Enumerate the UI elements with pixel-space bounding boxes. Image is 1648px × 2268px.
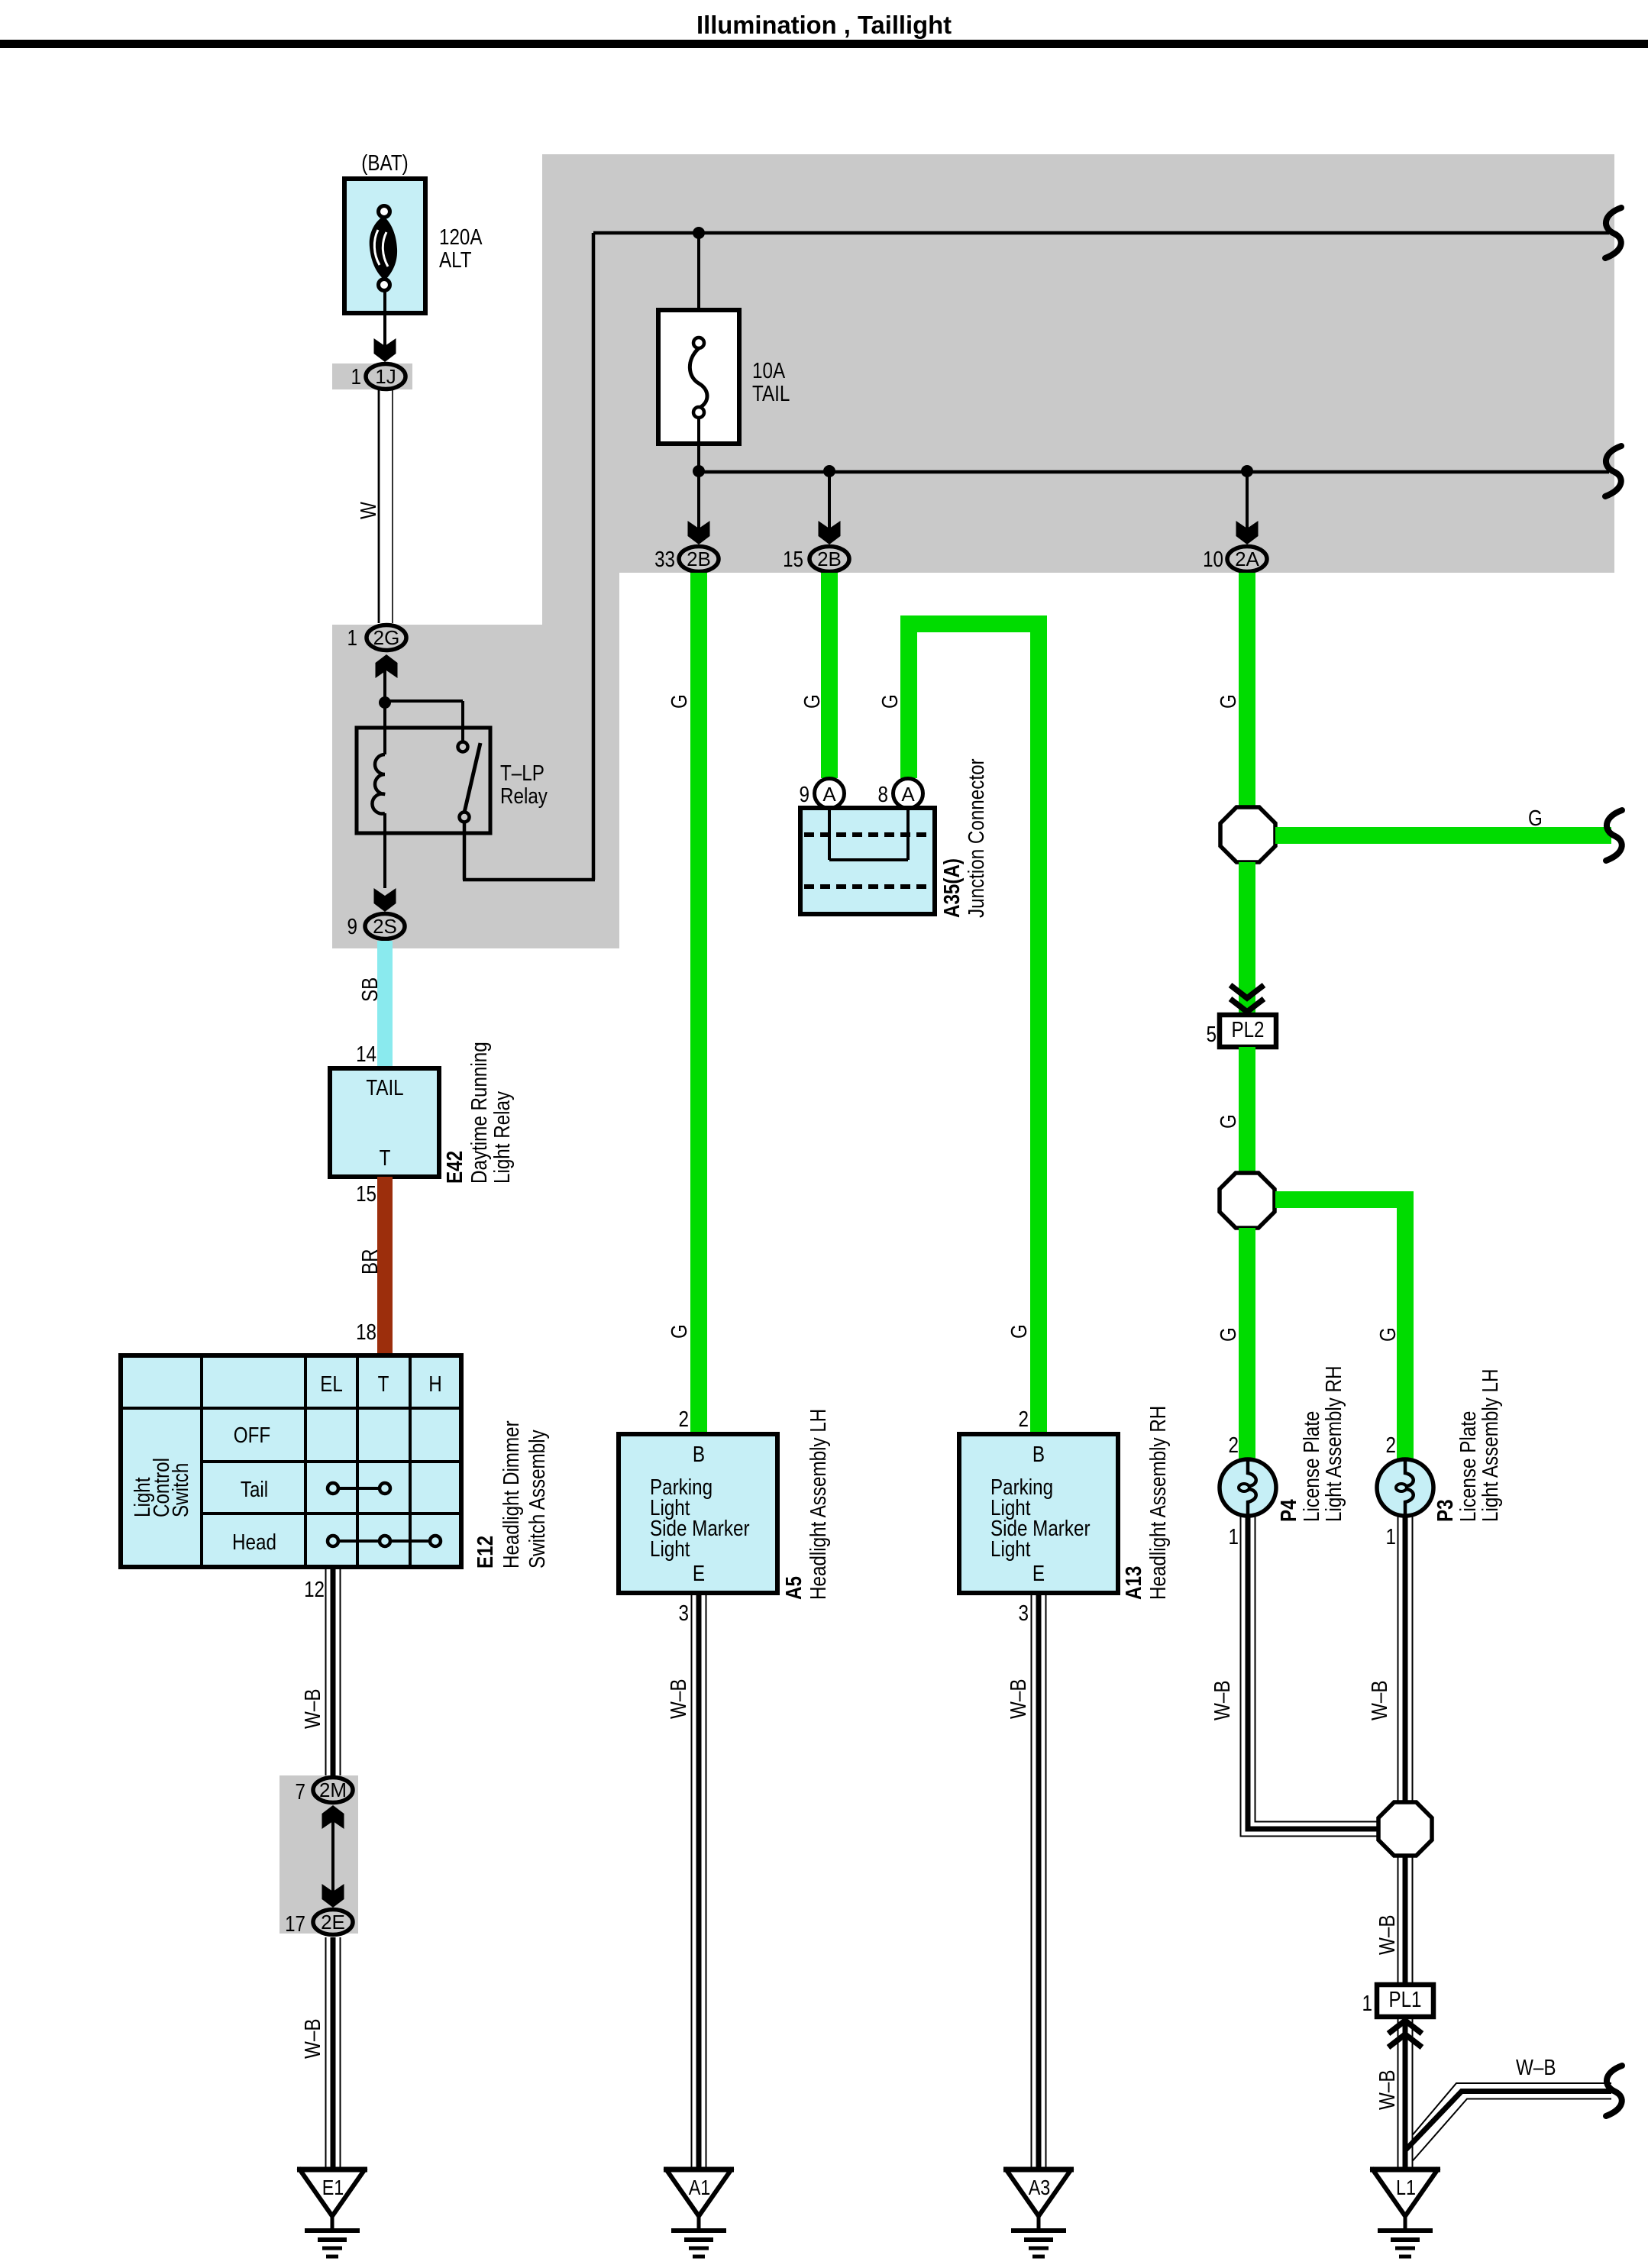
svg-text:G: G	[878, 694, 903, 709]
svg-text:A3: A3	[1029, 2176, 1051, 2199]
svg-text:2M: 2M	[319, 1779, 347, 1801]
svg-text:2S: 2S	[373, 915, 397, 938]
svg-text:E: E	[693, 1562, 705, 1586]
svg-text:2: 2	[679, 1407, 690, 1432]
svg-text:W–B: W–B	[667, 1679, 691, 1720]
svg-text:ALT: ALT	[439, 248, 472, 273]
svg-text:E1: E1	[322, 2176, 344, 2199]
svg-text:E12: E12	[473, 1536, 498, 1569]
svg-text:P3: P3	[1433, 1499, 1458, 1522]
svg-text:B: B	[1032, 1443, 1045, 1467]
svg-text:A5: A5	[782, 1576, 806, 1600]
svg-text:15: 15	[356, 1182, 376, 1207]
svg-text:TAIL: TAIL	[366, 1076, 403, 1100]
svg-text:Switch Assembly: Switch Assembly	[525, 1430, 550, 1569]
svg-text:T–LP: T–LP	[500, 761, 544, 786]
svg-text:G: G	[1007, 1324, 1032, 1339]
svg-text:Tail: Tail	[241, 1478, 268, 1502]
svg-text:2: 2	[1386, 1433, 1397, 1458]
svg-text:W–B: W–B	[1375, 2070, 1400, 2111]
svg-text:17: 17	[285, 1912, 305, 1937]
svg-text:A35(A): A35(A)	[940, 858, 965, 918]
svg-text:9: 9	[800, 783, 810, 807]
svg-text:12: 12	[304, 1578, 325, 1602]
svg-text:(BAT): (BAT)	[361, 151, 408, 176]
svg-text:A1: A1	[689, 2176, 711, 2199]
svg-text:G: G	[800, 694, 825, 709]
svg-text:Switch: Switch	[169, 1463, 193, 1517]
svg-text:2: 2	[1229, 1433, 1239, 1458]
svg-text:Light: Light	[650, 1537, 690, 1562]
svg-text:Head: Head	[232, 1530, 276, 1555]
svg-text:W–B: W–B	[1375, 1915, 1400, 1956]
svg-text:Illumination , Taillight: Illumination , Taillight	[696, 11, 952, 39]
svg-text:G: G	[1217, 694, 1241, 709]
svg-text:TAIL: TAIL	[752, 382, 790, 406]
svg-text:7: 7	[296, 1780, 306, 1804]
svg-text:SB: SB	[358, 977, 383, 1002]
svg-text:OFF: OFF	[234, 1423, 270, 1448]
svg-text:15: 15	[783, 548, 803, 572]
svg-text:BR: BR	[358, 1249, 383, 1275]
svg-text:License Plate: License Plate	[1300, 1411, 1324, 1522]
svg-text:Light Assembly RH: Light Assembly RH	[1322, 1366, 1346, 1523]
svg-text:10: 10	[1203, 548, 1223, 572]
svg-text:EL: EL	[320, 1372, 343, 1397]
svg-text:Daytime Running: Daytime Running	[467, 1042, 492, 1184]
svg-text:2G: 2G	[373, 626, 400, 649]
svg-text:G: G	[1217, 1114, 1241, 1129]
svg-text:3: 3	[679, 1601, 690, 1626]
svg-text:1: 1	[1362, 1992, 1373, 2016]
svg-text:2B: 2B	[817, 548, 842, 570]
svg-text:G: G	[1376, 1327, 1401, 1342]
svg-text:T: T	[380, 1146, 391, 1171]
svg-text:Light: Light	[990, 1537, 1031, 1562]
svg-text:1: 1	[347, 626, 358, 651]
svg-text:9: 9	[347, 915, 358, 939]
svg-text:W: W	[357, 502, 381, 519]
svg-text:G: G	[667, 694, 692, 709]
svg-text:E: E	[1032, 1562, 1045, 1586]
svg-text:W–B: W–B	[1368, 1681, 1392, 1721]
svg-text:H: H	[428, 1372, 442, 1397]
svg-text:Light Relay: Light Relay	[490, 1090, 515, 1184]
svg-text:L1: L1	[1396, 2176, 1416, 2199]
svg-text:W–B: W–B	[1210, 1681, 1235, 1721]
svg-text:Light Assembly LH: Light Assembly LH	[1478, 1369, 1503, 1523]
svg-text:1: 1	[1386, 1525, 1397, 1549]
svg-text:1J: 1J	[375, 365, 396, 388]
svg-text:1: 1	[1229, 1525, 1239, 1549]
svg-text:Relay: Relay	[500, 784, 548, 809]
svg-text:P4: P4	[1277, 1499, 1301, 1522]
svg-text:2B: 2B	[687, 548, 711, 570]
svg-text:T: T	[378, 1372, 389, 1397]
svg-text:2E: 2E	[321, 1911, 345, 1934]
svg-text:Headlight Dimmer: Headlight Dimmer	[499, 1420, 524, 1569]
svg-text:PL2: PL2	[1232, 1018, 1265, 1042]
svg-text:120A: 120A	[439, 225, 483, 250]
svg-text:License Plate: License Plate	[1456, 1411, 1481, 1522]
svg-text:B: B	[693, 1443, 705, 1467]
svg-text:W–B: W–B	[301, 2019, 325, 2060]
svg-text:W–B: W–B	[1516, 2056, 1556, 2080]
svg-text:Junction Connector: Junction Connector	[965, 758, 989, 918]
svg-text:W–B: W–B	[301, 1689, 325, 1730]
svg-text:33: 33	[654, 548, 675, 572]
svg-text:G: G	[667, 1324, 692, 1339]
svg-text:5: 5	[1207, 1023, 1217, 1047]
svg-text:G: G	[1217, 1327, 1241, 1342]
svg-text:3: 3	[1019, 1601, 1029, 1626]
svg-text:18: 18	[356, 1320, 376, 1345]
svg-text:G: G	[1528, 806, 1543, 831]
svg-text:Headlight Assembly RH: Headlight Assembly RH	[1146, 1406, 1171, 1600]
svg-text:A13: A13	[1122, 1566, 1146, 1600]
svg-text:2: 2	[1019, 1407, 1029, 1432]
svg-text:A: A	[901, 783, 915, 806]
svg-text:A: A	[822, 783, 836, 806]
svg-text:1: 1	[351, 365, 362, 389]
svg-text:14: 14	[356, 1042, 376, 1067]
svg-text:PL1: PL1	[1389, 1988, 1422, 2012]
svg-text:2A: 2A	[1235, 548, 1259, 570]
svg-text:10A: 10A	[752, 359, 786, 383]
svg-text:Headlight Assembly LH: Headlight Assembly LH	[806, 1409, 831, 1600]
svg-text:W–B: W–B	[1007, 1679, 1031, 1720]
svg-text:8: 8	[878, 783, 889, 807]
svg-text:E42: E42	[443, 1151, 467, 1184]
